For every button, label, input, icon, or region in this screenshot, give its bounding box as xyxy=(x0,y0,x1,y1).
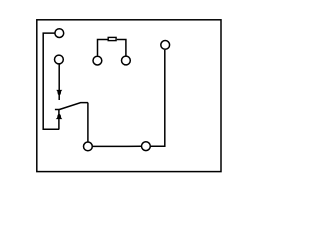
switch S1 xyxy=(55,90,88,119)
terminal P7 xyxy=(142,142,151,151)
terminal P5 xyxy=(161,41,170,50)
wire xyxy=(58,64,60,100)
terminal P2 xyxy=(55,55,64,64)
resistor R1 xyxy=(108,37,116,40)
terminal P4 xyxy=(122,56,131,65)
wire xyxy=(98,40,108,56)
terminal P3 xyxy=(93,56,102,65)
terminal P1 xyxy=(55,29,64,38)
wire xyxy=(43,33,59,129)
wire xyxy=(117,40,126,56)
wire xyxy=(93,145,141,147)
wire xyxy=(58,110,60,130)
terminal P6 xyxy=(84,142,93,151)
wire xyxy=(87,103,89,142)
wire xyxy=(151,50,165,146)
